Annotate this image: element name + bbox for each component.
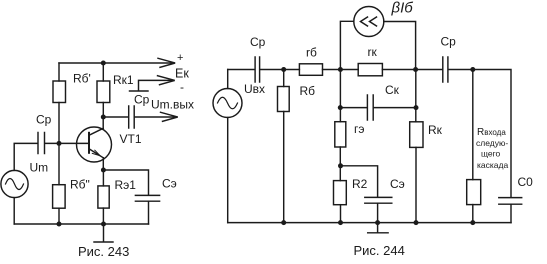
wire Rб' branch upper xyxy=(58,63,60,81)
resistor Rб' xyxy=(53,81,66,103)
wire R2 bottom xyxy=(340,205,342,223)
svg-text:Сэ: Сэ xyxy=(390,177,405,191)
wire top rail xyxy=(59,62,174,64)
ground xyxy=(94,224,113,242)
wire Rк bottom xyxy=(415,147,417,222)
capacitor Сэ plates xyxy=(135,195,159,201)
svg-text:C0: C0 xyxy=(518,175,534,189)
wire collector up xyxy=(102,117,104,128)
svg-text:Cp: Cp xyxy=(250,35,266,49)
wire emitter down xyxy=(102,158,104,170)
svg-text:Um: Um xyxy=(30,161,49,175)
wire input left segment xyxy=(14,143,37,170)
node collector-supply junction xyxy=(101,61,106,66)
wire current source left xyxy=(340,21,353,69)
capacitor Cк plates xyxy=(367,95,373,120)
arrow minus head xyxy=(158,76,175,85)
wire Rк1 branch upper xyxy=(102,63,104,81)
svg-text:Cp: Cp xyxy=(441,35,457,49)
svg-text:Сэ: Сэ xyxy=(162,177,177,191)
resistor R2 xyxy=(334,181,347,205)
wire minus terminal xyxy=(130,80,175,91)
node R2 top xyxy=(338,163,343,168)
svg-text:Рис. 243: Рис. 243 xyxy=(78,244,129,259)
svg-text:Rэ1: Rэ1 xyxy=(115,178,137,192)
svg-text:rб: rб xyxy=(306,46,317,60)
svg-text:Rб: Rб xyxy=(300,84,316,98)
capacitor Cp input plates (right circuit) xyxy=(255,57,260,82)
svg-text:следую-: следую- xyxy=(476,138,508,148)
wire Cp to right corner xyxy=(449,70,511,198)
node rail Rб xyxy=(281,220,286,225)
node bottom emitter xyxy=(101,222,106,227)
svg-text:Rк: Rк xyxy=(428,123,443,137)
capacitor Cp output plates xyxy=(129,106,135,128)
resistor Rб'' xyxy=(53,185,66,209)
resistor Rвхода xyxy=(467,180,481,205)
AC source Uвх xyxy=(213,89,242,118)
node Rвх top xyxy=(470,67,475,72)
svg-text:βIб: βIб xyxy=(391,0,414,17)
capacitor C0 plates xyxy=(499,198,522,205)
node rail ground xyxy=(375,220,380,225)
svg-text:Cp: Cp xyxy=(134,92,150,106)
wire Rб'' branch upper xyxy=(58,143,60,184)
wire rб to node B xyxy=(323,69,359,71)
wire Rб' branch lower xyxy=(58,103,60,144)
wire base segment xyxy=(46,142,89,144)
current source βIб xyxy=(354,7,384,37)
wire Rэ1 bottom xyxy=(102,208,104,224)
wire AC bottom (right circuit) xyxy=(227,118,229,223)
svg-text:Рис. 244: Рис. 244 xyxy=(354,243,405,258)
wire Cp to Rб node xyxy=(260,69,299,71)
node rail Rвх xyxy=(470,220,475,225)
wire bottom rail (right circuit) xyxy=(228,222,511,224)
wire AC top (right circuit) xyxy=(227,70,229,89)
resistor rб xyxy=(299,64,322,76)
wire Сэ bottom (right circuit) xyxy=(377,203,379,222)
node rail R2 xyxy=(338,220,343,225)
wire node B down xyxy=(339,70,341,122)
svg-text:гэ: гэ xyxy=(354,122,365,136)
wire main top horizontal xyxy=(228,69,255,71)
wire collector to output cap xyxy=(103,116,128,118)
wire rэ bottom xyxy=(339,147,341,181)
wire rк to node C xyxy=(382,69,442,71)
node B junction xyxy=(338,67,343,72)
wire current source right xyxy=(384,22,416,70)
wire C0 bottom xyxy=(510,204,512,222)
AC source Um xyxy=(1,170,28,197)
wire Rб'' branch lower xyxy=(58,208,60,224)
node collector output junction xyxy=(101,115,106,120)
node Cк left xyxy=(338,105,343,110)
transistor VT1 xyxy=(77,127,112,162)
arrow Um.вых head xyxy=(161,112,178,121)
wire Rвх bottom xyxy=(472,205,474,223)
svg-text:Cp: Cp xyxy=(36,113,52,127)
resistor Rб (right circuit) xyxy=(278,87,290,112)
wire Cк right segment xyxy=(374,107,416,109)
capacitor Сэ plates (right circuit) xyxy=(365,197,392,203)
resistor rк xyxy=(358,64,382,76)
svg-text:-: - xyxy=(180,80,184,94)
wire emitter rail to Сэ xyxy=(103,170,148,195)
wire Cк left segment xyxy=(340,107,367,109)
svg-text:Rк1: Rк1 xyxy=(113,73,134,87)
wire output with arrow Um.вых xyxy=(135,116,177,118)
node Cк right xyxy=(414,105,419,110)
svg-text:Uвх: Uвх xyxy=(244,82,265,96)
svg-text:Um.вых: Um.вых xyxy=(151,98,194,112)
wire bottom rail left xyxy=(14,223,148,225)
arrow + Ek terminal xyxy=(158,58,175,67)
current source chevrons xyxy=(361,17,377,26)
svg-text:щего: щего xyxy=(481,149,501,159)
svg-text:Ек: Ек xyxy=(175,67,189,81)
capacitor Cp input plates xyxy=(38,133,45,154)
svg-text:каскада: каскада xyxy=(477,160,508,170)
svg-text:VT1: VT1 xyxy=(120,132,142,146)
node Rб top xyxy=(281,67,286,72)
svg-text:R2: R2 xyxy=(352,177,368,191)
node emitter junction xyxy=(101,168,106,173)
svg-text:+: + xyxy=(177,52,183,64)
resistor Rэ1 xyxy=(98,186,109,208)
svg-text:rк: rк xyxy=(368,45,378,59)
wire node C down xyxy=(415,70,417,122)
node base junction xyxy=(57,141,62,146)
node bottom Rб'' xyxy=(57,222,62,227)
svg-text:Rб': Rб' xyxy=(73,72,91,86)
node C junction xyxy=(413,67,418,72)
wire Rк1 branch lower xyxy=(102,103,104,118)
resistor rэ xyxy=(335,122,346,147)
ground (right circuit) xyxy=(368,223,388,233)
wire Rвх branch xyxy=(472,70,474,180)
resistor Rк (right circuit) xyxy=(410,122,423,148)
wire Сэ bottom xyxy=(148,201,150,224)
svg-text:Rб": Rб" xyxy=(70,178,90,192)
svg-text:Rвхода: Rвхода xyxy=(477,127,506,138)
node rail Rк xyxy=(414,220,419,225)
wire Rб branch upper (right circuit) xyxy=(283,70,285,87)
wire source bottom xyxy=(13,198,15,224)
svg-text:Cк: Cк xyxy=(385,83,400,97)
capacitor Cp output plates (right circuit) xyxy=(443,57,448,82)
wire Rб branch lower (right circuit) xyxy=(283,112,285,223)
wire to Сэ branch xyxy=(341,166,378,197)
wire Rэ1 top xyxy=(102,170,104,186)
resistor Rк1 xyxy=(97,81,110,103)
